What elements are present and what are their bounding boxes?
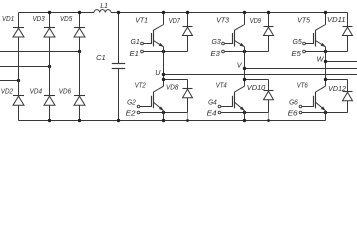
wire -DC bottom bus [19,120,326,122]
svg-text:VD11: VD11 [327,17,346,24]
transistor VT6 (lower IGBT) [297,83,326,111]
transistor VT1 (upper IGBT) [135,18,163,47]
transistor VT3 (upper IGBT) [216,18,244,47]
node rectifier leg 3 bottom-bus junction [78,119,81,122]
svg-text:VD1: VD1 [2,16,14,23]
wire E6 emitter line to leg and VD12 branch [302,112,348,114]
diode VD6 [59,86,85,105]
svg-text:U: U [155,68,161,77]
wire C1 top feed [118,13,120,64]
wire leg 2 to VD10 branch connector [245,79,269,81]
node VD8 bottom-bus junction [186,119,189,122]
node V label [237,61,243,70]
node rectifier leg 2 top-bus junction [48,11,51,14]
node C1 top-bus junction [117,11,120,14]
node leg 2 bottom emitter junction [243,111,246,114]
terminal G3 gate [212,39,225,46]
node leg 3 bottom emitter junction [324,111,327,114]
wire inverter leg 2 midsection [244,47,246,86]
wire E5 emitter line to VD11 branch [305,51,347,53]
svg-text:E4: E4 [207,111,217,118]
svg-text:L1: L1 [100,3,108,10]
svg-text:G2: G2 [127,100,136,107]
svg-text:VT5: VT5 [297,18,310,25]
node output V tap [243,67,246,70]
node leg 2 emitter junction [243,50,246,53]
diode VD1 [2,16,24,37]
svg-text:E1: E1 [130,51,139,58]
svg-text:VT1: VT1 [135,18,148,25]
terminal G5 gate [293,39,306,46]
node VD7 top-bus junction [186,11,189,14]
node inverter leg 1 top-bus junction [162,11,165,14]
wire E4 emitter line to leg and VD10 branch [221,112,269,114]
diode VD5 [60,16,85,37]
svg-text:VD3: VD3 [33,16,45,23]
svg-text:VD10: VD10 [247,85,266,92]
svg-text:E2: E2 [126,111,136,118]
wire E3 emitter line to VD9 branch [224,51,268,53]
terminal G1 gate [131,39,144,46]
diode VD3 [33,16,56,37]
svg-text:VT2: VT2 [135,83,146,90]
node inverter leg 2 top-bus junction [243,11,246,14]
node phase C junction [17,79,20,82]
node leg 3 emitter junction [324,50,327,53]
terminal G6 gate [289,100,302,108]
inductor L1 [94,3,111,13]
node VD10 bottom-bus junction [267,119,270,122]
node leg 3 lower-diode junction [324,78,327,81]
svg-text:VD9: VD9 [250,18,261,25]
phase input wire A (to rectifier leg 3) [0,51,80,53]
wire inverter leg 1 emitter drop to -bus [163,111,165,121]
wire C1 bottom feed [118,69,120,121]
node leg 1 emitter junction [162,50,165,53]
wire output V to right edge [245,68,357,70]
node inverter leg 1 bottom-bus junction [162,119,165,122]
node output W tap [324,60,327,63]
svg-text:VD7: VD7 [169,18,181,25]
capacitor C1 [96,55,125,69]
node U label [155,68,161,77]
wire output U to right edge [164,74,357,76]
phase input wire B (to rectifier leg 2) [0,66,50,68]
svg-text:G1: G1 [131,39,140,46]
node leg 1 lower-diode junction [162,78,165,81]
svg-text:G4: G4 [208,100,217,107]
terminal E1 emitter [130,50,144,58]
diode VD12 (freewheel, lower) [328,80,352,113]
node W label [317,55,325,64]
svg-text:C1: C1 [96,55,106,62]
svg-text:VD2: VD2 [1,86,13,95]
wire inverter leg 3 midsection [325,47,327,86]
node rectifier leg 3 top-bus junction [78,11,81,14]
phase input wire C (to rectifier leg 1) [0,80,19,82]
node C1 bottom-bus junction [117,119,120,122]
node rectifier leg 2 bottom-bus junction [48,119,51,122]
svg-text:VD8: VD8 [166,84,179,91]
svg-text:VT4: VT4 [216,83,227,90]
wire +DC top bus (L1 to VD11 branch corner) [111,12,348,14]
diode VD10 (freewheel, lower) [247,80,274,113]
node leg 2 lower-diode junction [243,78,246,81]
node phase B junction [48,65,51,68]
node inverter leg 2 bottom-bus junction [243,119,246,122]
transistor VT5 (upper IGBT) [297,18,325,47]
svg-text:VD12: VD12 [328,86,346,93]
node output U tap [162,73,165,76]
wire VD8 stub to -bus [187,113,189,121]
terminal G2 gate [127,100,140,108]
svg-text:E3: E3 [211,51,220,58]
wire leg 1 to VD8 branch connector [164,79,188,81]
diode VD9 (freewheel, upper) [250,13,274,52]
svg-text:VD5: VD5 [60,16,72,23]
diode VD2 [1,86,24,105]
node inverter leg 3 top-bus junction [324,11,327,14]
svg-text:VD6: VD6 [59,86,71,95]
wire VD10 stub to -bus [268,113,270,121]
svg-text:VT6: VT6 [297,83,308,90]
transistor VT2 (lower IGBT) [135,83,164,111]
wire leg 3 to VD12 branch connector [326,79,348,81]
terminal E6 emitter [288,111,302,118]
svg-text:W: W [317,55,325,64]
transistor VT4 (lower IGBT) [216,83,245,111]
svg-text:G6: G6 [289,100,298,107]
terminal E5 emitter [292,50,306,58]
diode VD8 (freewheel, lower) [166,80,193,113]
svg-text:G5: G5 [293,39,302,46]
wire inverter leg 1 collector drop from +bus [163,13,165,25]
node leg 1 bottom emitter junction [162,111,165,114]
terminal E3 emitter [211,50,225,58]
diode VD7 (freewheel, upper) [169,13,193,52]
wire inverter leg 3 collector drop from +bus [325,13,327,25]
terminal G4 gate [208,100,221,108]
wire rectifier leg 3 vertical [79,13,81,121]
wire inverter leg 3 emitter drop to -bus [325,111,327,121]
diode VD11 (freewheel, upper) [327,13,353,52]
wire rectifier leg 1 vertical [18,13,20,121]
wire output W to right edge [326,61,357,63]
svg-text:G3: G3 [212,39,221,46]
svg-text:E5: E5 [292,51,301,58]
terminal E2 emitter [126,111,140,118]
terminal E4 emitter [207,111,221,118]
wire E2 emitter line to leg and VD8 branch [140,112,188,114]
node VD9 top-bus junction [267,11,270,14]
wire rectifier leg 2 vertical [49,13,51,121]
diode VD4 [30,86,55,105]
wire inverter leg 2 emitter drop to -bus [244,111,246,121]
svg-text:VT3: VT3 [216,18,229,25]
svg-text:E6: E6 [288,111,298,118]
node phase A junction [78,50,81,53]
wire E1 emitter line to VD7 branch [143,51,187,53]
svg-text:VD4: VD4 [30,86,42,95]
wire +DC top bus (left corner to L1) [19,12,95,14]
wire inverter leg 1 midsection [163,47,165,86]
wire inverter leg 2 collector drop from +bus [244,13,246,25]
